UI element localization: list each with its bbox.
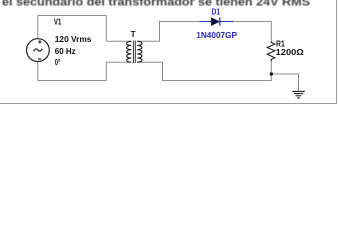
V1 plus sign xyxy=(38,40,41,43)
page border right xyxy=(336,0,338,104)
svg-text:1200Ω: 1200Ω xyxy=(276,47,305,57)
wire resistor bottom to transformer secondary bottom xyxy=(137,61,271,80)
wire diode cathode to resistor top xyxy=(234,22,272,42)
junction dot xyxy=(270,72,273,75)
AC source V1 circle xyxy=(27,39,50,62)
page border bottom xyxy=(0,103,337,105)
resistor R1 zigzag xyxy=(267,41,275,61)
V1 sine symbol xyxy=(34,49,43,52)
svg-text:0°: 0° xyxy=(55,58,61,67)
diode D1 anode pin xyxy=(200,21,212,23)
svg-text:60 Hz: 60 Hz xyxy=(55,47,76,56)
svg-text:D1: D1 xyxy=(212,7,221,17)
ground xyxy=(292,91,305,98)
svg-text:120 Vrms: 120 Vrms xyxy=(55,35,92,44)
transformer T primary coil xyxy=(127,41,132,62)
svg-text:T: T xyxy=(131,30,136,39)
wire V1 bottom to transformer primary bottom xyxy=(38,62,132,81)
svg-text:V1: V1 xyxy=(54,18,62,27)
svg-text:1N4007GP: 1N4007GP xyxy=(196,30,237,40)
wire V1 top to transformer primary top xyxy=(38,16,132,42)
transformer core lines xyxy=(133,41,135,63)
wire transformer secondary top to diode anode xyxy=(137,22,199,42)
V1 minus sign xyxy=(38,58,41,60)
transformer T secondary coil xyxy=(137,41,142,62)
diode D1 cathode pin xyxy=(220,21,234,23)
diode D1 cathode bar xyxy=(219,18,221,26)
wire junction to ground xyxy=(271,74,298,91)
diode D1 triangle xyxy=(211,18,219,26)
svg-text:el secundario del transformado: el secundario del transformador se tiene… xyxy=(2,0,310,9)
